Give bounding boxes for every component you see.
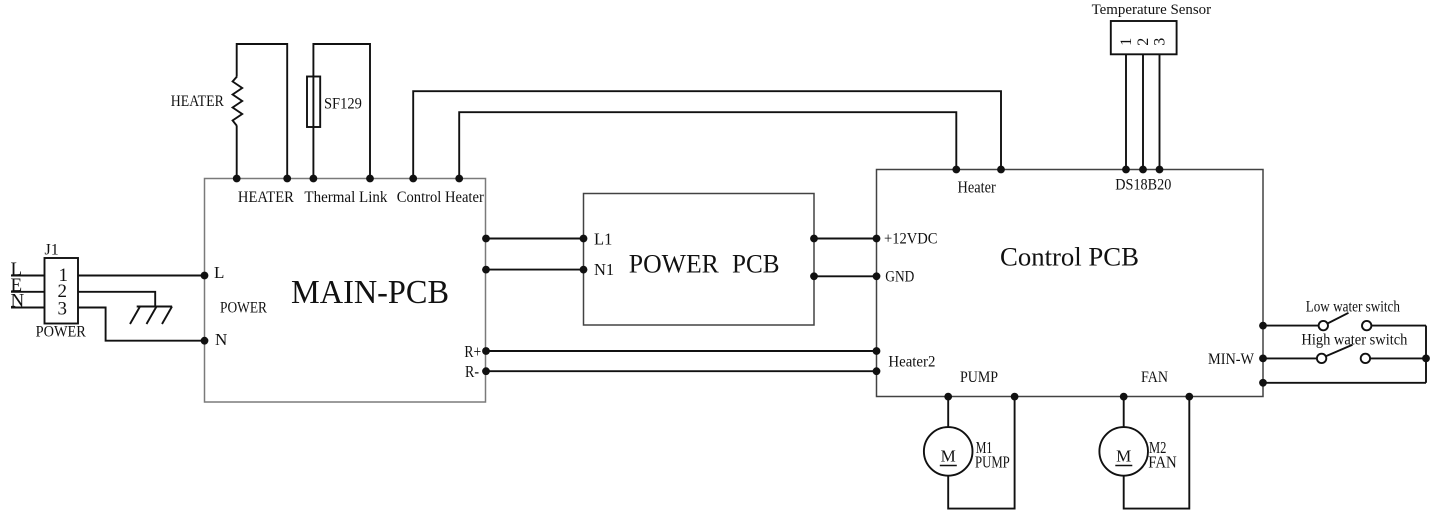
node main L1 (482, 235, 490, 243)
node control +12V (873, 235, 881, 243)
switch S2 contact right (1361, 354, 1370, 363)
svg-text:DS18B20: DS18B20 (1115, 177, 1171, 194)
node pump a (944, 393, 952, 401)
wire pin3 to N (78, 308, 205, 341)
wire heater lower lead (236, 126, 238, 179)
wire to high water switch (1263, 357, 1317, 359)
wire pump loop (948, 397, 1014, 509)
wire N1 (486, 269, 584, 271)
node control heater wire A (997, 166, 1005, 174)
wire R+ (486, 350, 877, 352)
svg-text:+12VDC: +12VDC (884, 231, 938, 248)
wire control heater A (413, 91, 1001, 178)
wire pin1 to L (78, 275, 205, 277)
svg-text:PUMP: PUMP (975, 453, 1010, 472)
node power GND (810, 272, 818, 280)
svg-text:M: M (941, 447, 956, 466)
wire sensor 3 (1159, 55, 1161, 170)
node Control Heater B (455, 175, 463, 183)
svg-text:1: 1 (1118, 38, 1135, 46)
svg-text:MIN-W: MIN-W (1208, 351, 1255, 368)
svg-text:GND: GND (885, 269, 914, 286)
motor M2 (1099, 427, 1148, 476)
node main N1 (482, 266, 490, 274)
MAIN-PCB box U1 (205, 179, 486, 403)
node low water switch (1259, 322, 1267, 330)
svg-text:Control Heater: Control Heater (397, 189, 485, 206)
node fan a (1120, 393, 1128, 401)
svg-text:Control PCB: Control PCB (1000, 243, 1139, 272)
wire from low water switch (1371, 325, 1426, 327)
node Control Heater A (409, 175, 417, 183)
connector J1 (45, 258, 79, 324)
node Thermal Link left (310, 175, 318, 183)
svg-text:Heater2: Heater2 (888, 354, 935, 371)
switch S2 blade (1326, 345, 1353, 356)
wire heater loop top (237, 44, 288, 179)
ground (130, 307, 172, 325)
node control Heater2 a (873, 347, 881, 355)
wire pin2 to earth (78, 292, 155, 307)
svg-text:SF129: SF129 (324, 96, 362, 113)
svg-text:FAN: FAN (1141, 369, 1168, 386)
node power L1 (580, 235, 588, 243)
svg-text:HEATER: HEATER (238, 189, 294, 206)
node power N1 (580, 266, 588, 274)
node sensor pin2 (1139, 166, 1147, 174)
wire fan top lead (1123, 397, 1125, 428)
svg-text:3: 3 (1151, 38, 1168, 46)
svg-text:2: 2 (1135, 38, 1152, 46)
node control heater wire B (952, 166, 960, 174)
wire L stub (11, 275, 45, 277)
node MIN-W (1259, 355, 1267, 363)
node power +12V (810, 235, 818, 243)
node L main pcb (201, 272, 209, 280)
svg-text:R-: R- (465, 362, 479, 381)
svg-text:J1: J1 (45, 242, 59, 259)
wire switch return (1263, 382, 1426, 384)
wire GND (814, 275, 877, 277)
svg-text:N1: N1 (594, 260, 614, 279)
svg-text:Thermal Link: Thermal Link (304, 189, 387, 206)
node N main pcb (201, 337, 209, 345)
underline M2 (1115, 465, 1132, 467)
svg-text:FAN: FAN (1148, 453, 1177, 472)
svg-text:N: N (215, 330, 227, 349)
node sensor pin3 (1156, 166, 1164, 174)
node Thermal Link right (366, 175, 374, 183)
wire sensor 1 (1125, 55, 1127, 170)
temperature sensor connector (1111, 21, 1177, 54)
node right rail (1422, 355, 1430, 363)
wire fan loop (1124, 397, 1190, 509)
svg-text:3: 3 (58, 299, 68, 320)
svg-text:PUMP: PUMP (960, 369, 998, 386)
svg-text:Temperature Sensor: Temperature Sensor (1092, 2, 1212, 18)
svg-text:PCB: PCB (732, 250, 780, 279)
wire +12VDC (814, 238, 877, 240)
wire from high water switch (1370, 357, 1426, 359)
switch S2 high water contact left (1317, 354, 1326, 363)
wire control heater B (459, 112, 956, 178)
wire E stub (11, 291, 45, 293)
node switch return (1259, 379, 1267, 387)
wire N stub (11, 307, 45, 309)
node pump b (1011, 393, 1019, 401)
wire L1 (486, 238, 584, 240)
svg-text:L: L (214, 263, 224, 282)
heater element (resistor) (233, 77, 243, 127)
svg-text:MAIN-PCB: MAIN-PCB (291, 274, 449, 311)
wire to low water switch (1263, 325, 1319, 327)
svg-text:M: M (1116, 447, 1131, 466)
wire right rail (1425, 326, 1427, 383)
wire sensor 2 (1142, 55, 1144, 170)
node fan b (1185, 393, 1193, 401)
svg-text:L1: L1 (594, 230, 612, 249)
node sensor pin1 (1122, 166, 1130, 174)
Control PCB box U3 (877, 170, 1264, 397)
wire R- (486, 370, 877, 372)
node control Heater2 b (873, 367, 881, 375)
motor M1 (924, 427, 973, 476)
svg-text:Heater: Heater (958, 177, 997, 196)
svg-text:POWER: POWER (629, 250, 720, 279)
POWER PCB box U2 (584, 194, 815, 326)
node control GND (873, 272, 881, 280)
node HEATER pin right (283, 175, 291, 183)
switch S1 blade (1328, 313, 1349, 324)
underline M1 (940, 465, 957, 467)
wire thermal link loop (313, 44, 370, 179)
wire pump top lead (947, 397, 949, 428)
svg-text:Low water switch: Low water switch (1306, 299, 1400, 316)
svg-text:High water switch: High water switch (1301, 332, 1407, 349)
switch S1 contact right (1362, 321, 1371, 330)
node HEATER pin left (233, 175, 241, 183)
node main R+ (482, 347, 490, 355)
svg-text:HEATER: HEATER (171, 93, 224, 110)
switch S1 low water contact left (1319, 321, 1328, 330)
svg-text:R+: R+ (464, 342, 481, 361)
svg-text:POWER: POWER (220, 300, 267, 317)
thermal fuse SF129 (307, 77, 320, 128)
svg-text:POWER: POWER (36, 324, 87, 341)
node main R- (482, 367, 490, 375)
